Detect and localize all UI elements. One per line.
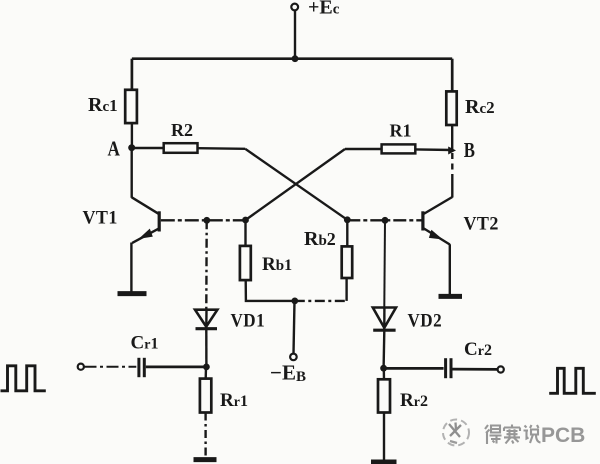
svg-text:Rr2: Rr2 — [400, 390, 428, 411]
ground VT2 — [439, 294, 463, 299]
wire Cr1 to junction — [146, 366, 207, 369]
wire input terminal to Cr1 (dashed) — [85, 366, 137, 368]
svg-text:+Ec: +Ec — [308, 0, 340, 19]
resistor R1 — [382, 144, 416, 153]
svg-text:Rb2: Rb2 — [304, 228, 336, 250]
resistor Rr2 — [378, 379, 390, 412]
svg-text:R1: R1 — [390, 121, 412, 141]
junction bus/+Ec — [292, 55, 299, 62]
wire Rr1 to ground (dash-dot) — [204, 413, 206, 457]
wire VD2 to Cr2 node — [382, 331, 385, 368]
transistor VT2 — [423, 197, 452, 245]
resistor Rb2 — [342, 246, 353, 278]
resistor Rr1 — [200, 379, 211, 413]
node B arrowhead — [448, 147, 456, 155]
watermark logo — [443, 420, 469, 446]
wire node A down to VT1 collector — [130, 148, 132, 198]
diode VD2 — [373, 307, 396, 330]
wire R1 right to node B — [415, 148, 452, 151]
wire junction to Rr2 — [383, 368, 386, 379]
junction -EB — [291, 298, 298, 305]
resistor R2 — [164, 143, 198, 153]
+Ec terminal — [291, 4, 298, 11]
junction Rb1 top / R1 diagonal — [242, 217, 249, 224]
resistor Rc1 — [125, 90, 137, 123]
input terminal left — [78, 364, 84, 370]
ground Rr1 — [194, 457, 217, 462]
svg-text:Rc1: Rc1 — [88, 94, 118, 116]
svg-text:Rc2: Rc2 — [465, 96, 495, 118]
wire -EB node to Rb2 lead (dashed) — [295, 300, 347, 302]
wire Rc1 to node A — [131, 123, 133, 148]
svg-text:Cr1: Cr1 — [131, 333, 159, 354]
wire VT2 base (dash-dot) — [347, 219, 421, 221]
transistor VT1 — [132, 197, 160, 243]
svg-text:Cr2: Cr2 — [464, 339, 492, 360]
wire node A to R2 — [132, 147, 165, 149]
resistor Rc2 — [446, 91, 456, 125]
wire -EB node to terminal — [294, 301, 295, 354]
wire Rr2 to ground — [383, 413, 385, 461]
output square wave symbol (right) — [549, 368, 596, 393]
wire Cr2 to output terminal — [453, 368, 498, 371]
wire Rb1 to -EB node — [246, 280, 295, 301]
svg-text:B: B — [464, 139, 475, 162]
ground Rr2 — [371, 460, 397, 464]
wire R1 left lead — [345, 148, 382, 150]
svg-text:VD1: VD1 — [231, 310, 266, 331]
svg-text:−EB: −EB — [270, 361, 306, 386]
svg-text:Rr1: Rr1 — [220, 390, 248, 411]
svg-text:Rb1: Rb1 — [262, 254, 292, 275]
svg-text:VT1: VT1 — [83, 207, 118, 229]
svg-text:A: A — [108, 138, 121, 161]
capacitor Cr1 — [139, 358, 144, 377]
junction Rb2 top / R2 diagonal — [344, 216, 351, 223]
wire bus to Rc1 — [131, 59, 134, 91]
wire top supply bus — [132, 57, 452, 60]
wire junction to VD2 — [383, 220, 386, 306]
node A — [128, 144, 135, 151]
wire VT1 base (dash-dot) — [161, 219, 246, 221]
-EB terminal — [290, 354, 297, 361]
wire junction to Rr1 — [204, 367, 207, 379]
input square wave symbol (left) — [1, 366, 46, 391]
wire +Ec terminal to bus — [294, 11, 296, 59]
wire Rb2 bottom lead — [345, 278, 347, 301]
wire VD1 to Cr1 node — [205, 330, 207, 368]
junction VD2 drop — [382, 217, 389, 224]
watermark text (得寒说PCB drawn strokes) — [485, 425, 541, 445]
diode VD1 — [195, 309, 217, 329]
junction VD1 drop — [203, 217, 210, 224]
wire VT1 emitter down — [130, 243, 132, 292]
wire junction to Cr2 — [384, 367, 444, 370]
wire junction to VD1 (dash-dot) — [205, 220, 208, 308]
junction Cr2/Rr2/VD2 — [380, 365, 387, 372]
wire R2 right lead — [198, 147, 246, 150]
wire node B to VT2 collector (dashed top) — [451, 153, 453, 176]
wire bus to Rc2 — [451, 59, 454, 92]
output terminal right — [498, 366, 504, 372]
junction Cr1/Rr1/VD1 — [203, 364, 210, 371]
resistor Rb1 — [240, 246, 251, 280]
wire VT2 collector upper — [451, 176, 453, 198]
svg-text:VT2: VT2 — [464, 213, 499, 235]
svg-text:R2: R2 — [171, 120, 193, 140]
wire cross-coupling R1 to VT1 base node — [246, 149, 346, 220]
wire Rb2 top lead — [346, 220, 348, 247]
wire VT2 emitter down — [449, 244, 451, 294]
svg-text:PCB: PCB — [541, 424, 585, 447]
wire Rb1 top lead — [244, 220, 246, 246]
svg-text:VD2: VD2 — [408, 310, 443, 331]
capacitor Cr2 — [446, 358, 451, 378]
wire cross-coupling R2 to VT2 base node — [245, 149, 347, 220]
ground VT1 — [118, 291, 147, 296]
wire Rc2 to node B — [451, 125, 453, 150]
